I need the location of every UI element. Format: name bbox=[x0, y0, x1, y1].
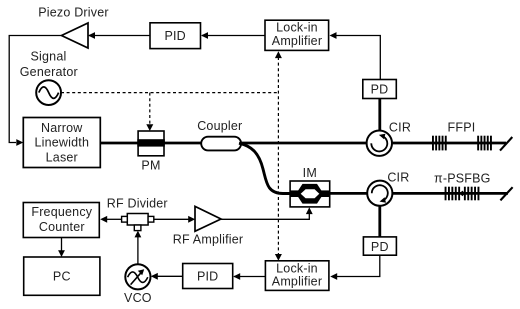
wire PD to Lock-in (top) bbox=[336, 36, 380, 80]
VCO circle bbox=[125, 264, 150, 289]
svg-text:Coupler: Coupler bbox=[197, 119, 242, 133]
fiber end slash (bottom) bbox=[500, 187, 512, 200]
wire fiber PD-CIR vertical (thick, top) bbox=[378, 99, 381, 132]
svg-text:PD: PD bbox=[371, 83, 389, 97]
svg-text:Generator: Generator bbox=[20, 65, 78, 79]
svg-text:Signal: Signal bbox=[31, 49, 67, 63]
svg-text:Lock-in: Lock-in bbox=[276, 261, 318, 275]
wire fiber coupler S-curve down to IM (thick) bbox=[239, 143, 291, 193]
box Frequency Counter bbox=[23, 203, 99, 238]
svg-text:π-PSFBG: π-PSFBG bbox=[434, 171, 491, 185]
wire fiber CIR2 to PSFBG end (thick) bbox=[392, 192, 508, 195]
IM band bbox=[290, 190, 330, 197]
RF amplifier triangle bbox=[195, 206, 221, 231]
arrowhead into VCO right edge bbox=[151, 273, 158, 280]
svg-text:CIR: CIR bbox=[387, 171, 409, 185]
wire Lock-in to PID bbox=[202, 35, 265, 37]
svg-text:Lock-in: Lock-in bbox=[276, 21, 318, 35]
arrowhead into Lock-in Amplifier bottom top-edge (down) bbox=[275, 254, 282, 261]
box Narrow Linewidth Laser bbox=[23, 118, 100, 168]
signal generator circle bbox=[36, 80, 61, 105]
arrowhead into Lock-in Amplifier top bottom-edge (up) bbox=[275, 51, 282, 58]
FFPI grating group 1 bbox=[432, 136, 447, 151]
box PC bbox=[24, 257, 100, 295]
arrowhead into PM top bbox=[146, 124, 153, 131]
box Lock-in Amplifier (top) bbox=[265, 20, 329, 50]
svg-text:Laser: Laser bbox=[46, 150, 78, 164]
wire fiber laser to CIR (thick) bbox=[100, 142, 367, 145]
box PID (top) bbox=[150, 23, 201, 49]
svg-text:RF Amplifier: RF Amplifier bbox=[173, 233, 243, 247]
wire fiber CIR2 down to PD2 (thick) bbox=[378, 206, 381, 238]
arrowhead into RF amp base (right) bbox=[188, 216, 195, 223]
box PID (bottom) bbox=[183, 264, 233, 289]
coupler stadium bbox=[201, 137, 241, 151]
svg-text:Amplifier: Amplifier bbox=[272, 34, 322, 48]
svg-text:VCO: VCO bbox=[124, 291, 152, 305]
arrowhead into IM bottom (up) bbox=[306, 207, 313, 214]
svg-text:PID: PID bbox=[164, 29, 185, 43]
svg-text:PM: PM bbox=[141, 158, 160, 172]
svg-text:Counter: Counter bbox=[39, 220, 85, 234]
VCO diagonal arrow bbox=[131, 272, 142, 284]
wire frequency counter to PC bbox=[61, 238, 63, 251]
pi phase-shift dot bbox=[460, 191, 466, 197]
IM hexagon white center bbox=[301, 189, 320, 198]
wire fiber IM to CIR2 (thick) bbox=[330, 192, 368, 195]
svg-text:PD: PD bbox=[371, 240, 389, 254]
svg-text:RF Divider: RF Divider bbox=[107, 196, 168, 210]
IM hexagon bbox=[296, 184, 324, 204]
pi-PSFBG grating group A bbox=[445, 187, 461, 201]
arrowhead into divider bottom (up) bbox=[135, 231, 142, 238]
PM black band bbox=[137, 139, 165, 146]
arrowhead into PID2 right edge bbox=[233, 273, 240, 280]
circulator CIR (bottom) bbox=[367, 181, 392, 206]
wire PD2 to Lock-in2 bbox=[337, 255, 380, 276]
wire PID to piezo-driver triangle bbox=[89, 35, 150, 37]
svg-text:FFPI: FFPI bbox=[448, 120, 476, 134]
arrowhead into PC top (down) bbox=[58, 250, 65, 257]
arrowhead into laser left edge bbox=[16, 139, 23, 146]
wire VCO up to RF divider bbox=[137, 237, 139, 264]
pi-PSFBG grating group B bbox=[464, 187, 480, 201]
svg-text:IM: IM bbox=[303, 166, 317, 180]
svg-text:Amplifier: Amplifier bbox=[272, 274, 322, 288]
wire divider to RF amplifier bbox=[154, 218, 189, 220]
wire divider to frequency counter bbox=[107, 218, 122, 220]
wire dashed branch down to PM bbox=[149, 93, 151, 125]
arrowhead into Lock-in2 right edge bbox=[330, 273, 337, 280]
box Lock-in Amplifier (bottom) bbox=[265, 261, 329, 291]
svg-text:Linewidth: Linewidth bbox=[34, 136, 89, 150]
arrowhead into frequency counter right edge bbox=[100, 216, 107, 223]
wire dashed vertical reference line bbox=[277, 57, 279, 255]
RF divider symbol bbox=[127, 214, 148, 226]
svg-text:Piezo Driver: Piezo Driver bbox=[38, 6, 108, 20]
circulator CIR (top) bbox=[367, 131, 392, 156]
FFPI grating group 2 bbox=[477, 136, 492, 151]
wire triangle apex to laser (feedback) bbox=[9, 36, 61, 143]
box PD (top) bbox=[363, 80, 397, 99]
wire Lock-in2 to PID2 bbox=[234, 276, 265, 278]
phase modulator PM box bbox=[138, 131, 164, 156]
signal generator sine bbox=[39, 87, 59, 99]
wire fiber CIR to FFPI end (thick) bbox=[392, 142, 506, 145]
wire dashed signal-generator horizontal bbox=[61, 92, 278, 94]
svg-text:PID: PID bbox=[197, 270, 218, 284]
svg-text:PC: PC bbox=[53, 269, 71, 283]
box PD (bottom) bbox=[363, 237, 396, 255]
arrowhead into Lock-in right edge bbox=[330, 32, 337, 39]
fiber end slash (top) bbox=[500, 137, 512, 151]
VCO sine bbox=[128, 272, 148, 283]
intensity modulator IM box bbox=[290, 181, 330, 207]
svg-text:Narrow: Narrow bbox=[41, 121, 83, 135]
wire PID2 to VCO bbox=[152, 275, 183, 277]
arrowhead into triangle base bbox=[88, 32, 95, 39]
svg-text:CIR: CIR bbox=[389, 120, 411, 134]
svg-text:Frequency: Frequency bbox=[31, 205, 92, 219]
piezo driver triangle bbox=[62, 23, 89, 48]
arrowhead into PID right edge bbox=[201, 32, 208, 39]
wire RF amplifier to IM bbox=[221, 214, 309, 220]
